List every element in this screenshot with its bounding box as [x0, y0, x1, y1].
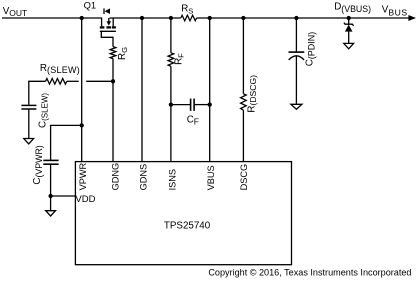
svg-text:Q1: Q1 — [84, 0, 97, 11]
svg-text:VPWR: VPWR — [78, 162, 88, 190]
wire CF right lead — [194, 104, 210, 106]
junction dot rail VBUS — [208, 16, 212, 20]
wire RG bottom to GDNG junction — [112, 59, 114, 82]
svg-text:R(SLEW): R(SLEW) — [40, 63, 80, 75]
capacitor C(PDIN) plates (polarized) — [289, 51, 305, 53]
diode D(VBUS) body — [345, 25, 353, 32]
junction dot CF right — [208, 102, 212, 106]
junction dot rail D(VBUS) — [347, 16, 351, 20]
wire VBUS pin vertical — [209, 18, 211, 162]
resistor RF body — [168, 53, 174, 67]
wire VPWR vertical — [81, 18, 83, 162]
IC U1 TPS25740 box — [75, 162, 291, 265]
wire top rail middle segment (Q1 source side) — [110, 17, 181, 19]
junction dot VDD node — [48, 194, 52, 198]
diode D(VBUS) top lead — [348, 18, 350, 25]
svg-text:VBUS: VBUS — [382, 4, 408, 17]
capacitor C(SLEW) plates — [21, 104, 36, 106]
ground VDD — [46, 211, 56, 216]
wire ISNS vertical lower — [170, 66, 172, 161]
ground D(VBUS) — [344, 43, 354, 48]
svg-text:R(DSCG): R(DSCG) — [246, 75, 257, 113]
svg-text:VOUT: VOUT — [3, 6, 28, 18]
wire C(PDIN) bottom lead — [295, 56, 297, 105]
svg-text:VDD: VDD — [75, 194, 95, 205]
svg-text:Copyright © 2016, Texas Instru: Copyright © 2016, Texas Instruments Inco… — [208, 268, 411, 278]
ground C(PDIN) — [291, 104, 302, 109]
resistor R(SLEW) body — [46, 79, 67, 85]
wire ISNS vertical upper — [170, 18, 172, 53]
svg-text:C(VPWR): C(VPWR) — [32, 145, 44, 184]
resistor RS body — [181, 15, 197, 21]
svg-text:TPS25740: TPS25740 — [164, 221, 211, 232]
wire GDNG junction to pin — [112, 81, 114, 161]
wire branch to C(VPWR) — [51, 125, 82, 159]
wire DSCG vertical lower — [242, 110, 244, 161]
wire C(SLEW) to ground — [28, 109, 30, 139]
wire CF left lead — [171, 104, 191, 106]
svg-text:VBUS: VBUS — [206, 165, 216, 190]
resistor R(DSCG) body — [241, 94, 247, 110]
svg-text:GDNS: GDNS — [139, 164, 149, 191]
transistor Q1 channel bar drain — [100, 26, 105, 28]
junction dot rail ISNS — [169, 16, 173, 20]
body diode of Q1 — [103, 8, 105, 14]
junction dot rail C(PDIN) — [294, 16, 298, 20]
ground C(SLEW) — [24, 139, 34, 144]
capacitor C(VPWR) plates — [43, 159, 58, 161]
junction dot rail VPWR — [80, 16, 84, 20]
junction dot VPWR branch — [80, 123, 84, 127]
wire C(VPWR) bottom to VDD junction — [50, 164, 52, 211]
wire top rail left segment (ends at Q1 drain corner) — [2, 18, 102, 26]
wire gate to RG — [101, 31, 113, 46]
wire C(PDIN) top lead — [295, 18, 297, 52]
wire GDNS vertical — [141, 18, 143, 162]
wire top rail right segment — [197, 17, 412, 19]
svg-text:D(VBUS): D(VBUS) — [334, 2, 371, 15]
junction dot rail GDNS — [140, 16, 144, 20]
resistor RG body — [110, 47, 116, 59]
diode D(VBUS) cathode bar (zener) — [344, 23, 354, 26]
wire R(SLEW) left lead to C(SLEW) — [29, 81, 46, 105]
svg-text:GDNG: GDNG — [110, 163, 120, 191]
svg-text:ISNS: ISNS — [167, 169, 177, 190]
transistor Q1 body arrow — [108, 18, 110, 22]
transistor Q1 channel bar source — [112, 26, 116, 28]
wire R(SLEW) right lead (breaks over VPWR line) — [67, 80, 79, 82]
capacitor CF plates — [190, 99, 192, 111]
svg-text:CF: CF — [187, 114, 199, 126]
svg-text:C(PDIN): C(PDIN) — [304, 32, 316, 67]
diode D(VBUS) bottom lead — [348, 32, 350, 44]
wire DSCG vertical upper — [242, 18, 244, 94]
svg-text:DSCG: DSCG — [239, 164, 249, 191]
transistor Q1 source stub — [112, 18, 114, 26]
wire VDD junction to pin — [51, 195, 76, 197]
junction dot GDNG node — [111, 79, 115, 83]
transistor Q1 channel bar body — [106, 26, 111, 28]
net arrow VBUS — [408, 15, 416, 21]
junction dot rail DSCG — [241, 16, 245, 20]
wire R(SLEW) right segment to GDNG junction — [86, 80, 113, 82]
transistor Q1 gate bar — [100, 30, 116, 32]
junction dot CF left — [169, 102, 173, 106]
